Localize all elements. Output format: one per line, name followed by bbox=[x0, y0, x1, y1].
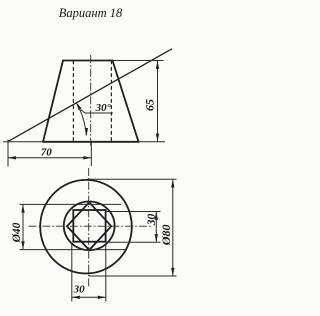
svg-text:70: 70 bbox=[41, 147, 53, 159]
arc arrow bottom bbox=[85, 128, 88, 136]
dimension D80: extension lines bbox=[87, 178, 177, 180]
dimension D40 line bbox=[22, 205, 24, 250]
hidden hole edge right (dashed) bbox=[110, 61, 112, 142]
front view: left slant bbox=[43, 61, 63, 142]
dimension 70: extension line bbox=[7, 140, 9, 167]
svg-text:Вариант 18: Вариант 18 bbox=[59, 6, 123, 20]
svg-text:30: 30 bbox=[73, 283, 86, 295]
dimension 30 bottom: extension lines bbox=[71, 244, 73, 302]
front view: base line with extensions bbox=[3, 141, 43, 143]
leader for 30 deg bbox=[81, 110, 114, 114]
dimension D80 line bbox=[172, 180, 174, 276]
axis extension below base bbox=[90, 142, 92, 166]
angle arc bbox=[76, 102, 86, 135]
plan view: outer circle bbox=[40, 180, 132, 274]
dimension 65: line and arrows bbox=[157, 61, 159, 142]
arc arrow top bbox=[76, 102, 82, 110]
front view: top edge with extension bbox=[63, 60, 113, 62]
svg-text:65: 65 bbox=[143, 99, 157, 111]
plan horizontal center line bbox=[29, 225, 152, 227]
plan vertical center line bbox=[88, 168, 90, 287]
dimension 30 bottom line bbox=[72, 296, 106, 298]
dimension 30 right: extension lines bbox=[106, 211, 161, 213]
dimension D40: extension lines bbox=[20, 203, 122, 205]
front axis center line bbox=[90, 55, 92, 146]
svg-text:Ø40: Ø40 bbox=[11, 222, 23, 243]
dimension 70 line bbox=[8, 157, 91, 159]
plan view: square bbox=[73, 210, 105, 242]
plan view: diamond (rotated square) bbox=[67, 202, 111, 250]
cutting plane line 30 deg bbox=[9, 49, 172, 141]
svg-text:Ø80: Ø80 bbox=[159, 225, 173, 247]
dimension 30 right line bbox=[155, 212, 157, 242]
svg-text:30: 30 bbox=[146, 214, 158, 227]
front view: right slant bbox=[113, 61, 139, 142]
plan view: inner circle (top face) bbox=[64, 202, 115, 251]
hidden hole edge left (dashed) bbox=[72, 61, 74, 142]
svg-text:30°: 30° bbox=[95, 102, 112, 114]
